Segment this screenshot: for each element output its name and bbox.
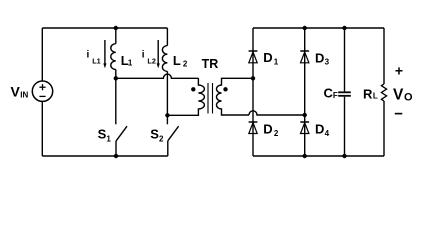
svg-text:V: V	[393, 86, 404, 103]
current arrow iL2	[157, 40, 160, 68]
svg-text:F: F	[333, 91, 338, 100]
svg-text:D: D	[315, 50, 324, 65]
label D1	[263, 50, 278, 66]
svg-text:2: 2	[159, 134, 164, 143]
wire L2 upper stub	[166, 28, 168, 46]
wire bottom-right rail	[253, 155, 384, 157]
label L2	[173, 53, 188, 68]
wire RL upper	[383, 28, 385, 84]
wire RL lower	[383, 101, 385, 156]
node D4 bottom junction	[303, 154, 307, 158]
label S1	[98, 127, 112, 144]
node D3 top junction	[303, 26, 307, 30]
svg-text:S: S	[98, 127, 107, 142]
svg-text:IN: IN	[20, 91, 28, 100]
resistor RL	[381, 84, 386, 101]
inductor L1	[111, 44, 116, 70]
svg-text:i: i	[87, 49, 90, 60]
node A junction (L1 / S1 / primary)	[114, 76, 118, 80]
switch S2 blade	[168, 126, 179, 141]
wire CF lower	[344, 97, 346, 156]
label CF	[324, 86, 338, 101]
wire left vertical lower	[41, 101, 43, 156]
node B junction (primary bottom / L2 / S2)	[165, 113, 169, 117]
svg-text:V: V	[11, 84, 21, 100]
node L1 top junction	[114, 26, 118, 30]
transformer TR core	[208, 83, 213, 114]
label L1	[121, 53, 133, 68]
label S2	[150, 127, 164, 144]
diode D2	[249, 122, 258, 134]
transformer TR primary winding	[167, 78, 204, 115]
svg-text:2: 2	[274, 129, 279, 138]
voltage source VIN	[32, 81, 52, 101]
wire S1 lower	[115, 141, 117, 156]
wire bottom-left rail	[42, 155, 168, 157]
svg-text:1: 1	[274, 57, 279, 66]
svg-text:TR: TR	[202, 57, 219, 71]
wire D3-D4 bridge leg	[304, 28, 306, 156]
switch S1 blade	[116, 126, 127, 141]
svg-text:i: i	[142, 49, 145, 60]
svg-text:O: O	[404, 92, 413, 104]
label VIN	[11, 84, 29, 100]
transformer secondary polarity dot	[223, 87, 227, 91]
svg-text:D: D	[315, 122, 324, 137]
wire top-right rail	[253, 27, 384, 29]
svg-text:S: S	[150, 127, 159, 142]
transformer primary polarity dot	[191, 87, 195, 91]
svg-text:L: L	[373, 92, 378, 101]
wire D1-D2 bridge leg	[252, 28, 254, 156]
svg-text:L2: L2	[147, 57, 156, 66]
svg-text:1: 1	[106, 134, 111, 143]
diode D4	[300, 122, 309, 134]
svg-text:4: 4	[325, 129, 330, 138]
wire node A to primary top (hops over L2 leg)	[116, 74, 199, 78]
svg-text:3: 3	[325, 58, 330, 67]
svg-text:2: 2	[183, 59, 188, 68]
current arrow iL1	[103, 40, 106, 68]
wire L1 upper stub	[115, 28, 117, 44]
wire L2 lower (through node B to switch S2)	[166, 71, 168, 124]
wire secondary bottom (hops over D1-D2 leg)	[249, 111, 305, 115]
svg-text:+: +	[395, 63, 403, 79]
wire L1 lower (to switch S1)	[115, 70, 117, 125]
node S1 bottom junction	[114, 154, 118, 158]
transformer TR secondary winding	[217, 78, 254, 115]
svg-text:L: L	[173, 53, 181, 68]
label iL1	[87, 49, 101, 65]
wire S2 lower	[167, 141, 169, 156]
svg-text:L1: L1	[92, 57, 101, 66]
diode D1	[249, 51, 258, 63]
label iL2	[142, 49, 156, 65]
diode D3	[300, 51, 309, 63]
label VO	[393, 86, 413, 103]
svg-text:R: R	[363, 86, 373, 101]
svg-text:1: 1	[128, 59, 133, 68]
label D4	[315, 122, 330, 138]
inductor L2	[162, 46, 167, 72]
svg-text:D: D	[263, 50, 272, 65]
node secondary bottom / D3-D4 midpoint	[303, 113, 307, 117]
svg-text:D: D	[263, 122, 272, 137]
svg-text:−: −	[394, 106, 403, 123]
wire CF upper	[344, 28, 346, 91]
node CF top junction	[342, 26, 346, 30]
capacitor CF	[338, 92, 351, 96]
label D2	[263, 122, 279, 138]
node CF bottom junction	[342, 154, 346, 158]
wire left vertical upper	[41, 28, 43, 81]
wire top-left rail	[42, 27, 167, 29]
node secondary top / D1-D2 midpoint	[251, 76, 255, 80]
label RL	[363, 86, 378, 101]
label D3	[315, 50, 330, 66]
